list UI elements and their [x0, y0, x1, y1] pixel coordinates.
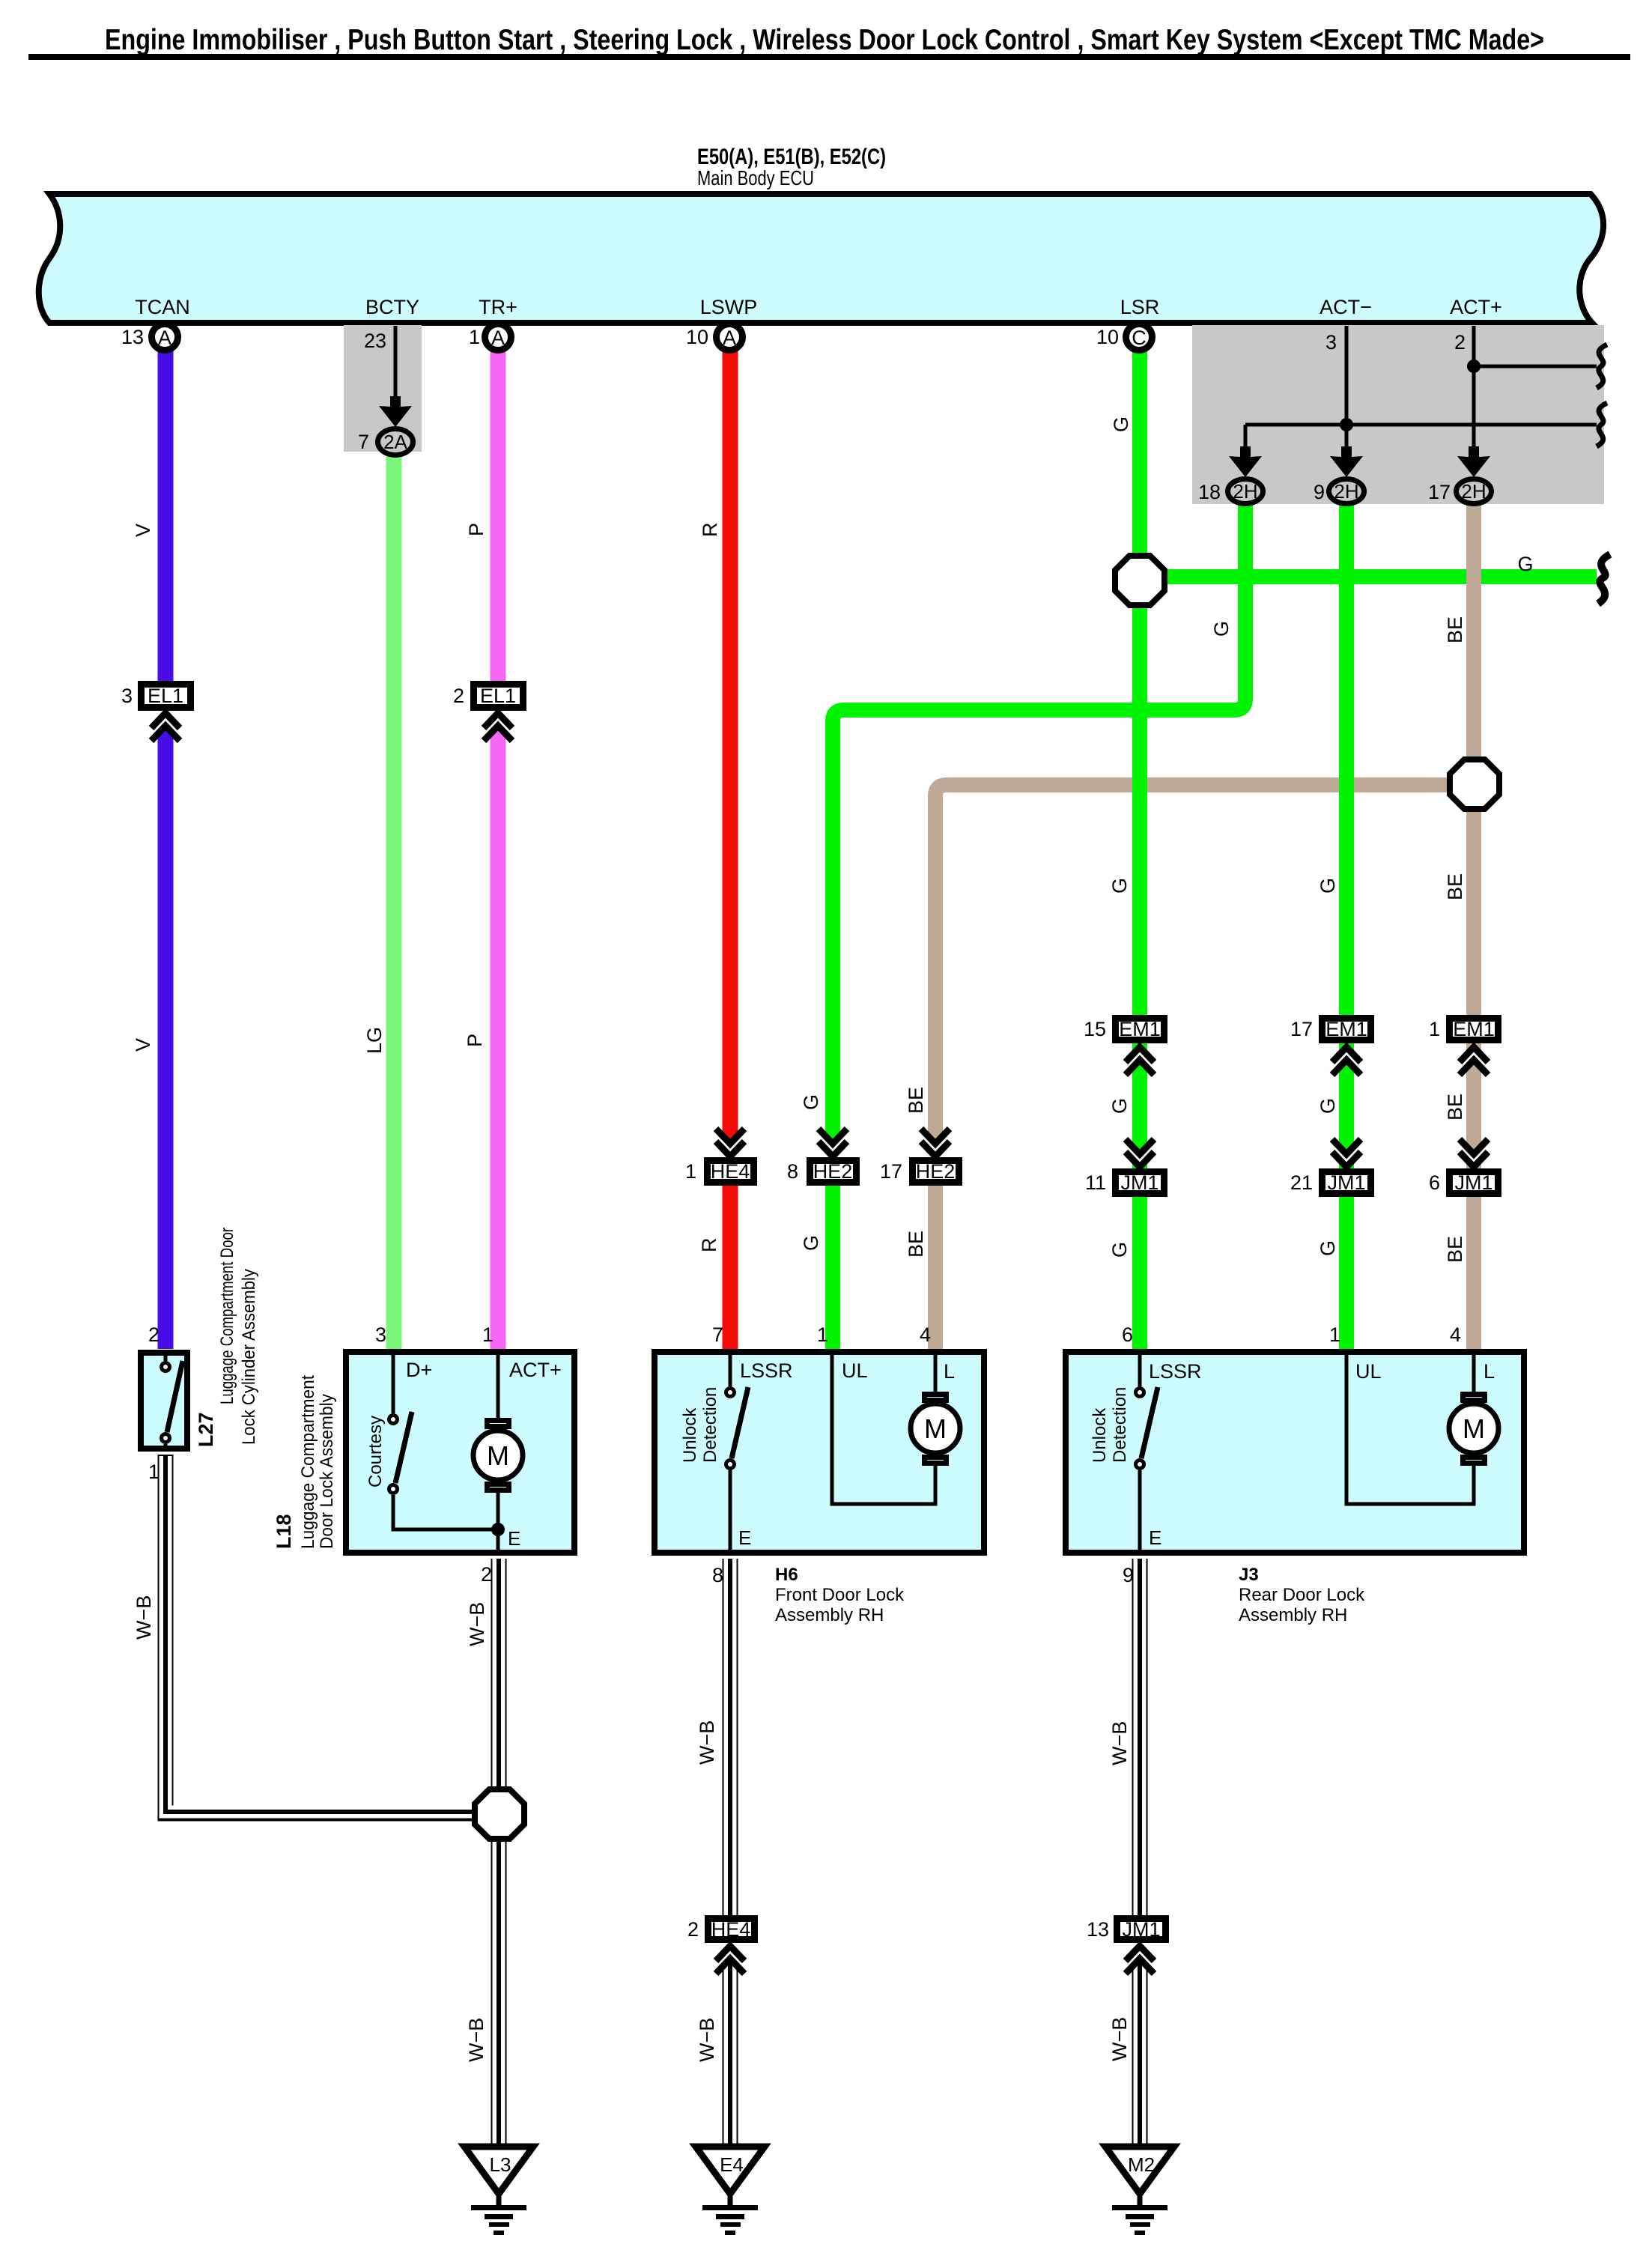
svg-text:LG: LG: [363, 1027, 386, 1054]
svg-text:EL1: EL1: [480, 685, 516, 707]
W-B wire from L18 through splice to ground L3: [491, 1559, 507, 2147]
svg-text:UL: UL: [842, 1359, 868, 1382]
svg-text:W−B: W−B: [1108, 2017, 1131, 2061]
svg-text:G: G: [1317, 878, 1339, 894]
svg-text:L18: L18: [273, 1514, 295, 1549]
svg-text:17: 17: [1290, 1018, 1313, 1040]
svg-text:G: G: [1108, 878, 1131, 894]
svg-text:Main Body ECU: Main Body ECU: [697, 166, 814, 189]
svg-text:LSSR: LSSR: [740, 1359, 793, 1382]
svg-text:W−B: W−B: [465, 2018, 488, 2062]
svg-text:G: G: [1317, 1098, 1339, 1114]
connector circle A TCAN: [152, 324, 178, 351]
svg-text:Assembly RH: Assembly RH: [1239, 1605, 1347, 1625]
main body ECU box: [39, 194, 1603, 323]
svg-text:JM1: JM1: [1122, 1918, 1160, 1941]
svg-text:8: 8: [787, 1160, 798, 1183]
wire P TR+: [491, 341, 506, 1349]
svg-text:3: 3: [375, 1323, 386, 1346]
chevron below EL1 pin2: [483, 713, 513, 741]
svg-text:V: V: [132, 524, 154, 537]
svg-text:Door Lock Assembly: Door Lock Assembly: [317, 1394, 337, 1549]
svg-text:23: 23: [364, 330, 386, 352]
ground L3: [464, 2147, 533, 2235]
H6 motor: [934, 1349, 938, 1393]
L18 courtesy switch: [392, 1349, 395, 1413]
svg-text:Detection: Detection: [1110, 1387, 1130, 1463]
svg-text:G: G: [1317, 1240, 1339, 1256]
svg-text:LSSR: LSSR: [1149, 1360, 1202, 1383]
svg-text:L27: L27: [195, 1412, 217, 1447]
ground E4: [696, 2147, 765, 2235]
svg-text:A: A: [491, 327, 505, 349]
svg-text:2H: 2H: [1233, 480, 1257, 503]
svg-text:HE4: HE4: [711, 1160, 750, 1183]
W-B wire from H6 to ground E4: [723, 1559, 738, 2147]
svg-text:H6: H6: [775, 1565, 798, 1585]
connector ellipse 2A: [378, 429, 413, 455]
svg-text:D+: D+: [406, 1359, 432, 1381]
H6 unlock detection switch: [729, 1349, 732, 1386]
svg-text:2H: 2H: [1334, 480, 1358, 503]
line B left corner down to 2H-18: [1244, 425, 1248, 460]
chevron below JM1-13: [1125, 1946, 1155, 1974]
svg-text:G: G: [800, 1235, 822, 1251]
svg-text:R: R: [699, 523, 721, 538]
svg-text:1: 1: [482, 1323, 494, 1346]
title underline: [28, 54, 1630, 60]
gray patch ACT: [1192, 325, 1604, 504]
connector circle C LSR: [1126, 324, 1153, 351]
svg-text:Assembly RH: Assembly RH: [775, 1605, 884, 1625]
svg-text:2: 2: [1454, 331, 1466, 354]
splice octagon on BE wire: [1450, 759, 1499, 809]
chevron below EM1-15: [1125, 1047, 1155, 1075]
svg-text:EL1: EL1: [148, 685, 183, 707]
svg-text:2: 2: [453, 685, 464, 707]
gray patch BCTY: [344, 325, 422, 452]
arrow into 2H-9: [1330, 446, 1363, 477]
svg-text:M: M: [487, 1440, 509, 1471]
connector HE4 pin1: [708, 1161, 754, 1183]
svg-text:W−B: W−B: [1108, 1721, 1131, 1765]
ground M2: [1105, 2147, 1174, 2235]
junction dot ACT-: [1340, 418, 1353, 431]
svg-text:1: 1: [1429, 1018, 1440, 1040]
svg-text:1: 1: [817, 1323, 828, 1346]
svg-text:V: V: [132, 1038, 154, 1052]
svg-text:W−B: W−B: [133, 1595, 155, 1640]
svg-text:21: 21: [1290, 1171, 1313, 1194]
svg-text:LSR: LSR: [1120, 296, 1160, 318]
svg-text:L3: L3: [490, 2153, 511, 2176]
W-B wire from L27 to splice: [165, 1455, 473, 1813]
svg-text:3: 3: [1325, 331, 1337, 354]
connector EM1 pin17: [1322, 1019, 1371, 1040]
connector EM1 pin1: [1450, 1019, 1498, 1040]
horizontal from ACT+ junction to edge: [1474, 365, 1597, 369]
wire LG BCTY: [386, 449, 402, 1349]
svg-text:18: 18: [1198, 481, 1221, 503]
connector HE2 pin8: [810, 1161, 857, 1183]
svg-text:P: P: [465, 523, 488, 536]
chevron above JM1-11: [1125, 1139, 1155, 1167]
connector EL1 pin3: [142, 685, 191, 708]
chevron above HE4: [715, 1129, 745, 1156]
svg-text:6: 6: [1429, 1171, 1440, 1194]
arrow into 2H-18: [1229, 446, 1262, 477]
svg-text:2: 2: [687, 1918, 699, 1941]
wire G bend from 2H-18 to HE2-8: [833, 497, 1245, 1349]
svg-text:LSWP: LSWP: [700, 296, 758, 318]
svg-text:Front Door Lock: Front Door Lock: [775, 1585, 905, 1605]
svg-text:4: 4: [1450, 1323, 1461, 1346]
wire BE vertical ACT+: [1466, 497, 1481, 1349]
svg-text:EM1: EM1: [1119, 1018, 1161, 1040]
svg-text:2H: 2H: [1461, 480, 1486, 503]
svg-text:ACT−: ACT−: [1320, 296, 1372, 318]
svg-text:Luggage Compartment: Luggage Compartment: [298, 1375, 318, 1549]
svg-text:EM1: EM1: [1453, 1018, 1495, 1040]
svg-text:BE: BE: [905, 1231, 927, 1258]
svg-text:ACT+: ACT+: [1450, 296, 1502, 318]
svg-text:M2: M2: [1128, 2153, 1155, 2176]
horizontal line B through ACT- to edge: [1245, 423, 1597, 427]
svg-text:1: 1: [1329, 1323, 1340, 1346]
svg-text:JM1: JM1: [1327, 1171, 1365, 1194]
connector HE2 pin17: [913, 1161, 959, 1183]
svg-text:Unlock: Unlock: [1090, 1407, 1110, 1463]
E junction dot: [491, 1523, 505, 1536]
svg-text:17: 17: [1428, 481, 1451, 503]
wire G ACT- vertical: [1339, 497, 1354, 1349]
connector ellipse 2H-9: [1329, 479, 1364, 504]
svg-text:HE4: HE4: [711, 1918, 751, 1941]
svg-text:1: 1: [685, 1160, 696, 1183]
svg-text:13: 13: [1087, 1918, 1109, 1941]
svg-text:BE: BE: [905, 1087, 927, 1114]
ACT+ vertical: [1472, 326, 1476, 460]
L18 motor: [496, 1349, 500, 1419]
svg-text:HE2: HE2: [813, 1160, 853, 1183]
svg-text:8: 8: [712, 1564, 723, 1586]
wire G horizontal from splice to right edge: [1146, 569, 1597, 584]
svg-text:L: L: [1484, 1360, 1495, 1383]
arrow into 2H-17: [1457, 446, 1490, 477]
chevron below EM1-17: [1331, 1047, 1361, 1075]
svg-text:2: 2: [481, 1563, 492, 1586]
connector EM1 pin15: [1116, 1019, 1164, 1040]
BCTY thin line: [394, 326, 398, 408]
svg-text:W−B: W−B: [696, 1720, 718, 1765]
component box H6: [655, 1352, 984, 1553]
svg-text:13: 13: [121, 326, 144, 348]
svg-text:G: G: [800, 1094, 822, 1110]
chevron above JM1-21: [1331, 1139, 1361, 1167]
connector JM1 pin21: [1322, 1172, 1371, 1194]
connector JM1 pin6: [1450, 1172, 1498, 1194]
svg-text:J3: J3: [1239, 1565, 1259, 1585]
svg-text:TCAN: TCAN: [135, 296, 190, 318]
J3 motor: [1472, 1349, 1476, 1393]
svg-text:BE: BE: [1444, 616, 1466, 643]
W-B wire from J3 to ground M2: [1132, 1559, 1148, 2147]
svg-text:4: 4: [920, 1323, 931, 1346]
svg-text:M: M: [924, 1413, 947, 1444]
svg-text:Lock Cylinder Assembly: Lock Cylinder Assembly: [239, 1269, 259, 1445]
svg-text:P: P: [464, 1034, 486, 1047]
connector circle A LSWP: [717, 324, 743, 351]
svg-text:7: 7: [358, 431, 369, 453]
svg-text:BCTY: BCTY: [365, 296, 419, 318]
svg-text:10: 10: [1096, 326, 1119, 348]
svg-text:G: G: [1108, 1098, 1131, 1114]
svg-text:3: 3: [121, 685, 133, 707]
svg-text:JM1: JM1: [1454, 1171, 1492, 1194]
svg-text:2: 2: [148, 1323, 160, 1346]
svg-text:9: 9: [1314, 481, 1325, 503]
svg-text:E: E: [738, 1526, 751, 1549]
connector JM1 pin11: [1116, 1172, 1164, 1194]
svg-text:C: C: [1132, 327, 1147, 349]
svg-text:TR+: TR+: [479, 296, 517, 318]
svg-text:W−B: W−B: [696, 2018, 718, 2062]
svg-text:7: 7: [712, 1323, 723, 1346]
squiggle break on G wire right: [1598, 554, 1610, 604]
svg-text:UL: UL: [1355, 1360, 1382, 1383]
chevron above HE2-17: [920, 1129, 950, 1156]
J3 unlock detection switch: [1138, 1349, 1142, 1386]
svg-text:L: L: [944, 1360, 955, 1383]
chevron above HE2-8: [818, 1129, 848, 1156]
svg-text:ACT+: ACT+: [509, 1359, 562, 1381]
svg-text:EM1: EM1: [1325, 1018, 1367, 1040]
svg-text:11: 11: [1085, 1171, 1106, 1194]
L27 switch: [164, 1350, 168, 1361]
svg-text:6: 6: [1122, 1323, 1133, 1346]
svg-text:JM1: JM1: [1120, 1171, 1158, 1194]
chevron above JM1-6: [1459, 1139, 1489, 1167]
wire G LSR vertical: [1132, 341, 1147, 1349]
svg-text:A: A: [723, 327, 736, 349]
svg-text:Rear Door Lock: Rear Door Lock: [1239, 1585, 1365, 1605]
splice octagon on W-B: [475, 1789, 524, 1839]
svg-text:G: G: [1110, 416, 1132, 432]
component box L18: [346, 1352, 574, 1553]
H6 UL-L internal u path: [832, 1349, 935, 1504]
svg-text:Unlock: Unlock: [680, 1407, 700, 1463]
wire R LSWP: [723, 341, 738, 1349]
svg-text:E: E: [508, 1527, 520, 1550]
connector HE4 pin2: [708, 1919, 755, 1940]
svg-text:15: 15: [1084, 1018, 1106, 1040]
gray2 thin lines: ACT- vertical: [1345, 326, 1349, 460]
svg-text:2A: 2A: [383, 431, 407, 453]
squiggle on line A: [1597, 345, 1607, 388]
junction dot ACT+: [1467, 360, 1481, 373]
wire V TCAN: [158, 341, 174, 1349]
component box L27: [141, 1353, 187, 1449]
svg-text:W−B: W−B: [466, 1602, 488, 1646]
svg-text:G: G: [1517, 553, 1533, 575]
connector ellipse 2H-17: [1457, 479, 1492, 504]
connector EL1 pin2: [474, 685, 523, 708]
chevron below EL1 pin3: [151, 713, 180, 741]
svg-text:G: G: [1108, 1242, 1131, 1258]
svg-text:1: 1: [469, 326, 480, 348]
arrow into 2A: [379, 396, 412, 427]
svg-text:Luggage Compartment Door: Luggage Compartment Door: [217, 1228, 237, 1404]
squiggle on line B: [1597, 403, 1607, 446]
chevron below HE4-2: [715, 1946, 745, 1974]
svg-text:Engine Immobiliser , Push Butt: Engine Immobiliser , Push Button Start ,…: [105, 24, 1544, 56]
component box J3: [1066, 1352, 1524, 1553]
connector JM1 pin13: [1117, 1919, 1166, 1940]
chevron below EM1-1: [1459, 1047, 1489, 1075]
svg-text:R: R: [698, 1238, 720, 1253]
svg-text:BE: BE: [1444, 1236, 1466, 1263]
svg-text:M: M: [1463, 1413, 1485, 1444]
svg-text:Detection: Detection: [700, 1387, 720, 1463]
svg-text:A: A: [158, 327, 171, 349]
svg-text:10: 10: [686, 326, 708, 348]
wire BE horizontal and bend to HE2: [935, 785, 1468, 1349]
svg-text:E4: E4: [720, 2153, 744, 2176]
svg-text:HE2: HE2: [916, 1160, 956, 1183]
svg-text:E: E: [1149, 1526, 1161, 1549]
splice octagon on LSR wire: [1115, 556, 1164, 605]
svg-text:BE: BE: [1444, 1094, 1466, 1121]
J3 UL-L internal u path: [1346, 1349, 1474, 1504]
svg-text:17: 17: [880, 1160, 902, 1183]
svg-text:Courtesy: Courtesy: [365, 1416, 386, 1488]
svg-text:G: G: [1210, 621, 1233, 637]
svg-text:BE: BE: [1444, 873, 1466, 900]
connector circle A TR+: [485, 324, 511, 351]
connector ellipse 2H-18: [1228, 479, 1263, 504]
